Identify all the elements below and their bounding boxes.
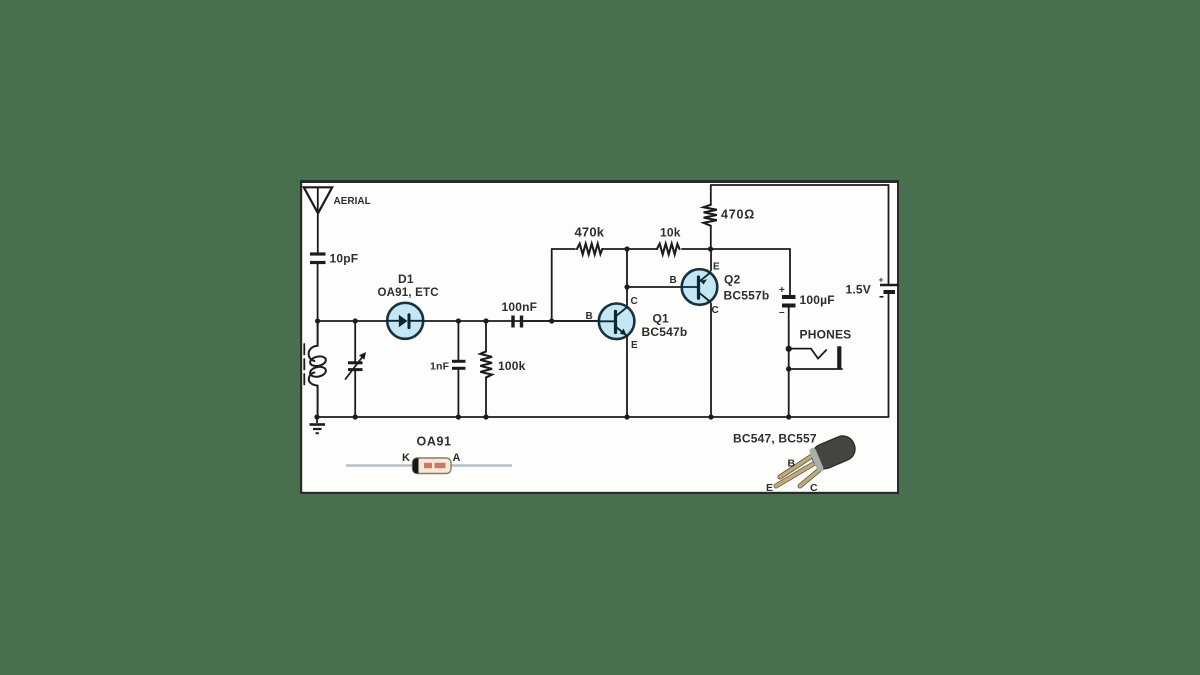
svg-text:C: C xyxy=(810,482,818,494)
antenna AERIAL xyxy=(304,187,332,252)
capacitor 100uF xyxy=(782,297,796,306)
junction dots xyxy=(314,246,791,419)
wire Q1 collector to Q2 base xyxy=(627,286,683,288)
wire bias rail to 100uF xyxy=(711,249,791,295)
capacitor 10pF xyxy=(310,254,326,263)
svg-text:E: E xyxy=(713,262,720,273)
capacitor 100nF xyxy=(513,316,522,328)
svg-text:D1: D1 xyxy=(398,272,414,286)
OA91 package lead wire xyxy=(346,464,512,467)
wire 10pF to RF node xyxy=(317,264,319,321)
svg-text:1nF: 1nF xyxy=(430,361,450,373)
wire 10k to Q2 emitter node xyxy=(682,248,711,250)
svg-text:B: B xyxy=(586,311,593,322)
variable capacitor arrowhead xyxy=(359,352,366,360)
diode D1 symbol xyxy=(388,315,424,328)
svg-text:100nF: 100nF xyxy=(502,300,538,314)
svg-text:C: C xyxy=(631,296,638,307)
transistor package TO-92 leads xyxy=(776,452,824,486)
svg-text:Q1: Q1 xyxy=(653,312,670,326)
coil core dashed line xyxy=(303,344,305,386)
capacitor 1nF xyxy=(452,321,466,417)
wire RF node line xyxy=(318,320,601,322)
OA91 package body xyxy=(413,458,452,474)
wire top supply rail xyxy=(711,185,889,284)
svg-text:OA91: OA91 xyxy=(417,435,452,449)
svg-text:+: + xyxy=(779,285,785,296)
svg-text:BC547b: BC547b xyxy=(642,325,688,339)
wire 100nF to Q1 base xyxy=(523,320,601,322)
transistor Q2 circle xyxy=(682,269,718,305)
svg-text:K: K xyxy=(402,452,410,464)
svg-text:BC547, BC557: BC547, BC557 xyxy=(733,432,817,446)
svg-text:+: + xyxy=(879,275,884,285)
svg-text:E: E xyxy=(766,482,773,494)
svg-text:Q2: Q2 xyxy=(724,273,741,287)
transistor Q1 circle xyxy=(599,304,635,340)
svg-text:1.5V: 1.5V xyxy=(846,283,872,297)
svg-text:10k: 10k xyxy=(660,226,681,240)
svg-text:470k: 470k xyxy=(575,225,605,240)
svg-text:470Ω: 470Ω xyxy=(721,208,755,222)
wire battery negative down xyxy=(888,294,890,417)
svg-text:PHONES: PHONES xyxy=(800,328,852,342)
svg-text:E: E xyxy=(631,340,638,351)
svg-text:B: B xyxy=(788,458,796,470)
wire bias rail left segment xyxy=(552,248,575,250)
wire bottom ground rail xyxy=(317,416,888,418)
wire Q1 emitter to ground rail xyxy=(626,338,628,418)
svg-text:C: C xyxy=(712,305,719,316)
resistor 100k xyxy=(480,321,492,417)
diode D1 circle xyxy=(387,303,423,339)
variable capacitor (tuning) xyxy=(346,321,364,417)
wire Q2 emitter xyxy=(710,249,712,271)
wire Q2 collector to ground rail xyxy=(710,304,712,418)
phones jack symbol xyxy=(789,349,842,369)
wire 470k to node xyxy=(602,248,657,250)
transistor package TO-92 body xyxy=(809,432,859,472)
wire Q1 collector branch vertical xyxy=(626,249,628,305)
svg-text:–: – xyxy=(779,307,785,318)
svg-text:A: A xyxy=(453,452,461,464)
wire 100uF to phones xyxy=(788,308,790,418)
resistor 470k xyxy=(577,244,602,255)
wire bias feedback vertical xyxy=(551,249,553,321)
svg-text:B: B xyxy=(670,275,677,286)
svg-text:100µF: 100µF xyxy=(800,293,835,307)
svg-text:OA91, ETC: OA91, ETC xyxy=(378,287,439,299)
resistor 10k xyxy=(657,244,680,255)
svg-text:AERIAL: AERIAL xyxy=(334,196,371,207)
svg-text:100k: 100k xyxy=(498,359,526,373)
resistor 470R vertical xyxy=(704,185,717,249)
transistor Q1 NPN symbol xyxy=(599,307,628,337)
transistor Q2 PNP symbol xyxy=(682,272,711,302)
svg-text:10pF: 10pF xyxy=(330,252,359,266)
phones jack plug bar xyxy=(837,346,841,369)
battery 1.5V xyxy=(880,285,899,292)
svg-text:BC557b: BC557b xyxy=(724,289,770,303)
ground symbol xyxy=(310,417,326,433)
inductor tuning coil xyxy=(309,321,327,417)
